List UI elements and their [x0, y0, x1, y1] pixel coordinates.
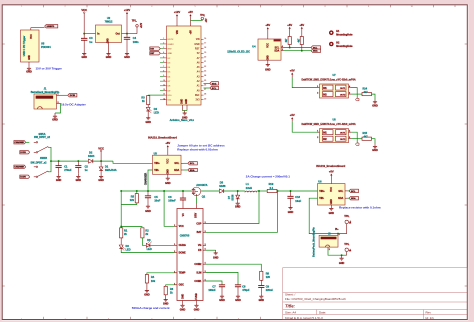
- ground below D1: [99, 171, 103, 179]
- svg-text:SS36: SS36: [219, 184, 226, 188]
- frame zone numbers bottom: [21, 318, 240, 320]
- svg-text:100n: 100n: [133, 40, 139, 44]
- svg-text:GND: GND: [168, 53, 173, 55]
- page margin bottom: [0, 320, 474, 322]
- svg-text:VCC: VCC: [168, 158, 170, 163]
- svg-text:GND: GND: [213, 256, 219, 259]
- svg-text:1: 1: [174, 244, 175, 246]
- wire D2 to VCC junction: [93, 160, 113, 162]
- page margin left: [0, 0, 2, 322]
- nano bottom GND pins: [181, 105, 183, 111]
- resistor R8: [260, 271, 263, 280]
- module U3 INA219 body: [153, 155, 182, 174]
- wire R15 to ground: [372, 139, 376, 144]
- svg-text:TP2,: TP2,: [200, 15, 205, 17]
- svg-text:GND: GND: [194, 308, 200, 311]
- svg-text:GND: GND: [372, 104, 378, 107]
- svg-text:24: 24: [204, 74, 206, 77]
- wire U3 SCL to label: [181, 162, 184, 164]
- ground after R15: [373, 144, 377, 148]
- svg-text:SCL: SCL: [275, 47, 280, 49]
- svg-text:SDA: SDA: [351, 197, 356, 200]
- svg-text:Title:: Title:: [285, 304, 296, 309]
- svg-text:5: 5: [163, 57, 164, 59]
- frame zone ticks left: [2, 44, 5, 286]
- resistor R2: [141, 228, 144, 238]
- wire nano A0 to SCL label: [204, 87, 210, 89]
- svg-text:C3: C3: [89, 36, 93, 40]
- ground below U6: [329, 205, 333, 210]
- svg-text:4: 4: [282, 45, 283, 48]
- svg-text:2: 2: [163, 43, 164, 45]
- IC U9 CN3703 body: [177, 209, 203, 301]
- svg-text:OUT2: OUT2: [340, 94, 346, 96]
- frame zone ticks top: [44, 5, 434, 8]
- svg-text:10uF: 10uF: [154, 199, 160, 203]
- svg-text:Out: Out: [115, 33, 119, 36]
- global label SCL at U3: [188, 162, 198, 165]
- module A1 Arduino Nano body: [167, 26, 202, 105]
- switch SW1B pole: [36, 166, 48, 178]
- svg-text:+5V: +5V: [290, 69, 295, 73]
- svg-text:B-: B-: [350, 249, 352, 252]
- svg-text:DCIN: DCIN: [20, 177, 26, 179]
- wire OSC to R6: [175, 284, 178, 286]
- ground below C1: [57, 174, 61, 179]
- svg-text:Id: 1/1: Id: 1/1: [426, 316, 435, 320]
- ground below CN3703 GND: [180, 304, 184, 308]
- svg-text:220nF: 220nF: [266, 288, 274, 292]
- svg-text:BarrelJack_MountingPin: BarrelJack_MountingPin: [31, 91, 60, 94]
- svg-text:CN3703: CN3703: [180, 234, 190, 238]
- svg-text:25: 25: [204, 80, 206, 82]
- module U7 body: [320, 84, 349, 98]
- wire OLED SDA: [281, 50, 284, 52]
- diode D2 on rail: [89, 159, 93, 163]
- svg-text:GND: GND: [180, 308, 186, 311]
- capacitor C6 to CN3703 VC pin: [182, 191, 184, 198]
- connector J2 battery holder body: [319, 235, 338, 247]
- svg-text:CHARGER: CHARGER: [144, 173, 147, 186]
- LED D6 horizontal: [142, 238, 146, 245]
- wire TP4 to gnd wire: [342, 254, 347, 256]
- hierarchical labels on nano left pins: [150, 47, 161, 50]
- page margin top: [0, 0, 474, 4]
- svg-text:GND: GND: [186, 99, 188, 104]
- svg-text:C2: C2: [85, 164, 89, 168]
- svg-text:TP3,: TP3,: [344, 216, 349, 218]
- svg-text:PDC004: PDC004: [41, 45, 51, 49]
- svg-text:OUT2: OUT2: [340, 139, 346, 141]
- svg-text:9: 9: [163, 75, 164, 77]
- wire BAT to after-sense junction: [203, 231, 206, 233]
- svg-text:D0/RX: D0/RX: [168, 44, 175, 46]
- svg-text:Q1: Q1: [202, 194, 206, 198]
- power symbol +5V at nano 5V pin: [190, 21, 192, 26]
- wire DCIN to SW1B: [34, 176, 36, 178]
- svg-text:GND: GND: [165, 182, 171, 185]
- frame zone ticks right: [465, 44, 468, 286]
- wire R19 to U6 VIN+: [277, 190, 318, 192]
- ground below R4: [145, 283, 149, 293]
- svg-text:DCIN: DCIN: [70, 95, 76, 97]
- svg-text:GND: GND: [108, 38, 110, 43]
- svg-text:FUSB: FUSB: [196, 293, 198, 300]
- svg-text:R3: R3: [141, 96, 145, 100]
- svg-text:SDA: SDA: [338, 197, 343, 200]
- svg-text:C1: C1: [64, 164, 68, 168]
- svg-text:GND: GND: [268, 55, 270, 60]
- svg-text:C5: C5: [154, 195, 158, 199]
- svg-text:GND: GND: [98, 179, 104, 182]
- global label DCIN at J1: [68, 94, 77, 97]
- svg-text:128x32_OLED_I2C: 128x32_OLED_I2C: [227, 49, 250, 53]
- svg-text:U2: U2: [107, 16, 111, 20]
- wire +5V to U7 IN1: [292, 77, 317, 88]
- ground below CN3703 FUSB: [194, 304, 198, 308]
- diode D5 on rail: [219, 189, 223, 193]
- wire CHARGER to SW1A: [26, 141, 30, 143]
- svg-text:SW1B: SW1B: [40, 157, 47, 160]
- resistor R19 current sense: [267, 189, 277, 192]
- svg-text:+5V: +5V: [299, 23, 304, 27]
- svg-text:R2: R2: [145, 228, 149, 232]
- svg-text:+12V: +12V: [124, 8, 131, 12]
- svg-text:U3: U3: [154, 151, 158, 155]
- svg-text:1: 1: [205, 244, 206, 246]
- wire J1 pin2 to ground: [57, 103, 60, 105]
- frame zone ticks bottom: [44, 317, 261, 320]
- svg-text:SW_DPDT_x2: SW_DPDT_x2: [31, 162, 48, 165]
- svg-text:27: 27: [204, 89, 206, 91]
- svg-text:12: 12: [163, 89, 165, 91]
- global label SCL at nano: [210, 86, 219, 89]
- svg-text:U5: U5: [41, 41, 45, 45]
- wire U6 SCL to label: [345, 190, 347, 192]
- svg-text:D10: D10: [150, 48, 153, 50]
- svg-text:Size: A4: Size: A4: [285, 311, 296, 315]
- svg-text:26: 26: [204, 84, 206, 86]
- global label CHARGER at SW1B: [14, 165, 26, 168]
- svg-text:GND: GND: [106, 56, 112, 59]
- svg-text:GND: GND: [339, 262, 345, 265]
- wire CSP to sense junction: [203, 223, 206, 225]
- wire L1 to R19: [257, 190, 268, 192]
- wire J1 pin1 to DCIN label: [57, 94, 60, 96]
- svg-text:INA219_BreakoutBoard: INA219_BreakoutBoard: [148, 135, 177, 139]
- svg-text:REF: REF: [195, 95, 200, 97]
- svg-text:GND: GND: [259, 299, 265, 302]
- svg-text:R19: R19: [269, 182, 274, 186]
- svg-text:4k7: 4k7: [364, 91, 369, 94]
- svg-text:VIN-: VIN-: [154, 169, 159, 172]
- svg-text:1: 1: [174, 251, 175, 253]
- ground below C9: [259, 293, 263, 298]
- svg-text:SCL: SCL: [174, 162, 179, 165]
- svg-text:GND: GND: [76, 179, 82, 182]
- svg-text:C13: C13: [295, 195, 300, 199]
- capacitor C8: [235, 285, 241, 287]
- ground below R6: [164, 295, 168, 302]
- ground below U5: [27, 67, 31, 71]
- wire U8 OUT2 to resistor: [349, 138, 352, 140]
- rail jog to INA219 VIN+: [113, 161, 153, 163]
- svg-text:SCL: SCL: [338, 190, 343, 193]
- svg-text:19.5v DC Adapter: 19.5v DC Adapter: [61, 102, 87, 106]
- svg-text:5V: 5V: [197, 53, 200, 55]
- svg-text:LED: LED: [126, 248, 131, 252]
- svg-text:GND: GND: [181, 99, 183, 104]
- svg-text:RST: RST: [168, 48, 173, 50]
- wire U2 Out to +12V junction: [122, 33, 125, 35]
- resistor R1: [120, 228, 123, 238]
- svg-text:23: 23: [204, 70, 206, 72]
- wire Q1 gate to CN3703 DRV: [195, 197, 197, 204]
- capacitor C4: [126, 34, 128, 38]
- svg-text:Sheet: /: Sheet: /: [285, 293, 296, 297]
- resistor R14: [362, 93, 372, 96]
- wire U6 VIN- to battery: [309, 198, 347, 233]
- svg-text:GND: GND: [219, 299, 225, 302]
- svg-text:DRV: DRV: [196, 212, 198, 217]
- svg-text:22uH: 22uH: [246, 186, 252, 190]
- svg-text:GND: GND: [52, 119, 58, 122]
- IC U5 USB PD trigger body: [21, 30, 40, 62]
- svg-text:CHRG: CHRG: [179, 244, 186, 247]
- power symbol +5V at OLED: [267, 34, 269, 39]
- diode D7 freewheel vertical: [237, 191, 239, 195]
- svg-text:+5V: +5V: [206, 18, 208, 23]
- global label SDA at U6: [349, 197, 359, 200]
- svg-text:File: CN3703_3Cell_ChargingBoa: File: CN3703_3Cell_ChargingBoardR5V8.sch: [285, 297, 346, 301]
- resistor R5: [136, 191, 138, 194]
- svg-text:10: 10: [163, 80, 165, 82]
- ground below C3: [82, 51, 86, 56]
- global label SDA at nano: [210, 82, 219, 85]
- svg-text:1: 1: [339, 234, 340, 236]
- wire D5 to L1: [224, 190, 245, 192]
- svg-text:2: 2: [58, 102, 59, 104]
- svg-text:AO4407A: AO4407A: [196, 183, 207, 187]
- resistor R15: [362, 137, 372, 140]
- svg-text:1u: 1u: [85, 168, 88, 172]
- svg-text:SDA: SDA: [313, 50, 318, 53]
- svg-text:10k: 10k: [151, 279, 156, 283]
- svg-text:CHARGER: CHARGER: [15, 141, 25, 144]
- svg-text:LED: LED: [154, 110, 159, 114]
- svg-text:GND: GND: [145, 121, 151, 124]
- nano left pin wires and names: [160, 38, 174, 102]
- switch SW1A pole: [36, 142, 48, 154]
- svg-text:VCC: VCC: [331, 187, 333, 192]
- svg-text:+12V: +12V: [141, 22, 143, 28]
- svg-text:1u: 1u: [89, 40, 92, 44]
- svg-text:SMAJ13A: SMAJ13A: [105, 168, 117, 172]
- global label output U8: [355, 143, 359, 145]
- svg-text:GND: GND: [29, 55, 31, 60]
- svg-text:GND: GND: [235, 206, 241, 209]
- svg-text:VIN+: VIN+: [154, 162, 160, 165]
- global label SDA at U3: [188, 168, 198, 171]
- svg-text:0.1: 0.1: [270, 186, 274, 190]
- svg-text:D4: D4: [154, 107, 158, 111]
- wire CHARGER to SW1B: [34, 166, 36, 168]
- svg-text:R4: R4: [151, 275, 155, 279]
- connector J1 barrel jack body: [34, 94, 57, 109]
- svg-text:MountingHole: MountingHole: [336, 45, 353, 48]
- wire U3 VIN- down CHARGER net: [148, 170, 153, 191]
- module U6 INA219 body: [318, 184, 346, 205]
- svg-text:MountingHole: MountingHole: [336, 34, 353, 37]
- wire resistor pair top: [121, 226, 142, 228]
- svg-text:+5V: +5V: [265, 23, 270, 27]
- LED D3 vertical: [120, 238, 122, 245]
- svg-text:3: 3: [282, 49, 283, 51]
- svg-text:17: 17: [204, 43, 206, 45]
- svg-text:270uF: 270uF: [64, 168, 72, 172]
- global label SDA at OLED: [311, 49, 321, 52]
- ground below nano: [183, 111, 187, 116]
- svg-text:D1/TX: D1/TX: [168, 39, 174, 41]
- input rail wire DCIN: [51, 160, 88, 162]
- svg-text:LED: LED: [147, 247, 152, 251]
- svg-text:GND: GND: [26, 71, 32, 74]
- wire SW1B common to rail: [48, 161, 51, 172]
- svg-text:C8: C8: [242, 284, 246, 288]
- ground below D7: [236, 199, 240, 205]
- global label DCIN at SW1A: [20, 151, 30, 154]
- ground at FB pin: [214, 250, 218, 255]
- wire U5 VCC to USBPD label: [30, 28, 32, 30]
- svg-text:FB: FB: [198, 249, 201, 252]
- svg-text:20: 20: [204, 57, 206, 59]
- wire U8 OUT1 to output label: [349, 131, 352, 133]
- wire DCIN to SW1A: [34, 151, 36, 153]
- svg-text:SS34: SS34: [88, 154, 95, 158]
- svg-text:U4: U4: [252, 45, 256, 49]
- svg-text:R8: R8: [266, 271, 270, 275]
- svg-text:VCC: VCC: [179, 225, 184, 228]
- svg-text:OUT1: OUT1: [340, 132, 346, 134]
- module U4 OLED body: [258, 39, 281, 60]
- svg-text:1: 1: [58, 94, 59, 96]
- global label DCIN at SW1B: [20, 175, 30, 178]
- TVS diode D1: [100, 161, 102, 167]
- svg-text:ILIM: ILIM: [197, 271, 202, 274]
- capacitor C13: [290, 191, 292, 196]
- nano right pin names: [194, 38, 206, 102]
- svg-text:VCC: VCC: [81, 8, 87, 12]
- svg-text:470pF: 470pF: [242, 288, 250, 292]
- svg-text:D1: D1: [105, 164, 109, 168]
- svg-text:DONE: DONE: [179, 252, 186, 255]
- resistor R4: [145, 275, 148, 284]
- svg-text:120: 120: [266, 275, 271, 279]
- svg-text:GND: GND: [329, 212, 335, 215]
- ground below U3: [166, 174, 170, 180]
- power symbol +12V at nano VIN: [176, 21, 178, 26]
- svg-text:VIN+: VIN+: [319, 190, 325, 193]
- svg-text:GND: GND: [168, 169, 170, 174]
- svg-text:DaMTCW_SMD_EX8AT3.1ms_sYC-32h0: DaMTCW_SMD_EX8AT3.1ms_sYC-32h0_mP3A: [302, 123, 356, 126]
- svg-text:GND: GND: [124, 56, 130, 59]
- svg-text:22: 22: [204, 66, 206, 68]
- svg-text:GND: GND: [81, 56, 87, 59]
- svg-text:RST: RST: [195, 48, 200, 50]
- svg-text:GND: GND: [372, 149, 378, 152]
- ground below J1: [53, 113, 57, 118]
- svg-text:28: 28: [204, 94, 206, 96]
- svg-text:D2: D2: [89, 151, 93, 155]
- wire +5V to U8 IN1: [292, 122, 317, 133]
- wire D6 to CN3703 CHRG pin: [150, 244, 175, 246]
- mounting hole H1: [329, 30, 334, 35]
- ground below C8: [236, 293, 240, 298]
- svg-text:+5V: +5V: [188, 10, 193, 14]
- global label CHARGER at SW1A: [14, 141, 26, 144]
- ground below C7: [220, 293, 224, 298]
- svg-text:C6: C6: [168, 195, 172, 199]
- svg-text:GND: GND: [235, 299, 241, 302]
- module U8 body: [320, 129, 349, 143]
- svg-text:15V or 20V Trigger: 15V or 20V Trigger: [36, 66, 63, 70]
- svg-text:GND: GND: [331, 199, 333, 204]
- svg-text:C4: C4: [133, 36, 137, 40]
- wire ILIM to C8: [203, 271, 206, 273]
- wire nano D12 to R3 LED chain: [148, 94, 164, 96]
- svg-text:D6: D6: [147, 238, 151, 242]
- wire divider column down: [120, 191, 122, 227]
- svg-text:+5V: +5V: [329, 170, 334, 174]
- inductor L1: [245, 191, 257, 192]
- svg-text:+5V: +5V: [287, 23, 292, 27]
- svg-text:BAT: BAT: [197, 231, 202, 234]
- capacitor C5: [147, 191, 149, 196]
- svg-text:SS36: SS36: [232, 194, 235, 201]
- resistor R6: [164, 286, 167, 295]
- svg-text:TP1,: TP1,: [132, 21, 137, 23]
- svg-text:7: 7: [163, 66, 164, 68]
- svg-text:+12V: +12V: [174, 10, 181, 14]
- ground below LED D4: [146, 111, 150, 120]
- wire U6 SDA to label: [345, 197, 347, 199]
- svg-text:DCIN: DCIN: [20, 152, 26, 154]
- svg-text:SDA: SDA: [174, 169, 179, 172]
- svg-text:VCC: VCC: [268, 43, 270, 48]
- svg-text:SW_DPDT_x2: SW_DPDT_x2: [34, 136, 51, 139]
- svg-text:SCL: SCL: [190, 163, 195, 165]
- svg-text:USB C PD Trigger: USB C PD Trigger: [23, 36, 26, 57]
- CN3703 bottom GND pin: [182, 301, 184, 304]
- svg-text:GND: GND: [182, 294, 184, 299]
- svg-text:GND: GND: [265, 69, 271, 72]
- wire nano A1 to SDA label: [204, 82, 210, 84]
- wire R5 bottom to divider column: [121, 203, 137, 205]
- LED D4 below nano: [147, 105, 149, 108]
- wire VCC rail to U2 In: [84, 33, 95, 35]
- svg-text:C9: C9: [266, 284, 270, 288]
- global label SCL at OLED: [311, 46, 321, 49]
- wire FB to ground: [203, 249, 206, 251]
- capacitor C9: [260, 280, 262, 285]
- svg-text:2: 2: [317, 92, 318, 94]
- capacitor C2: [77, 161, 79, 166]
- wire SW1A common to rail: [48, 147, 51, 161]
- svg-text:SCL: SCL: [351, 191, 356, 193]
- wire U7 OUT2 to resistor: [349, 93, 352, 95]
- svg-text:GND: GND: [194, 44, 199, 46]
- svg-text:TP4,: TP4,: [344, 243, 349, 246]
